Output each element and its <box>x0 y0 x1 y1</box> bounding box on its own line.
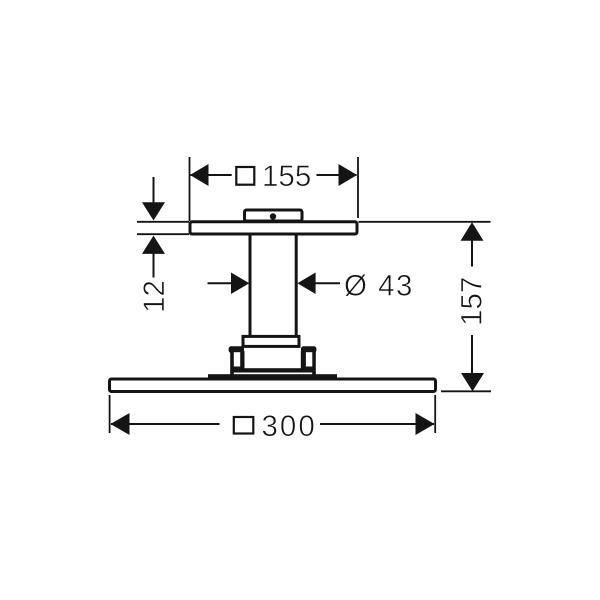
svg-text:Ø 43: Ø 43 <box>344 270 414 303</box>
svg-text:300: 300 <box>262 410 317 443</box>
svg-text:157: 157 <box>456 277 489 326</box>
svg-text:155: 155 <box>262 160 311 193</box>
svg-text:12: 12 <box>138 280 171 313</box>
